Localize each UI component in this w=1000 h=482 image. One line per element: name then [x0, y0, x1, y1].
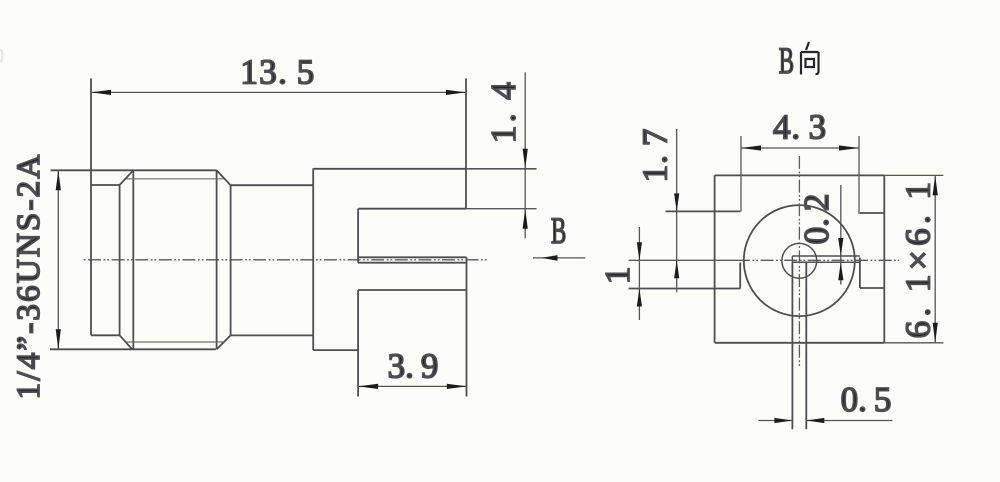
dimension 4.3	[741, 136, 859, 214]
hanzi xiang (drawn)	[801, 42, 819, 75]
right view square flange	[715, 175, 885, 342]
view direction arrow B	[533, 255, 585, 261]
svg-text:6. 1×6. 1: 6. 1×6. 1	[899, 178, 938, 339]
dimension 0.5	[758, 420, 892, 422]
leg strip (right view)	[792, 262, 806, 429]
dimension 3.9	[358, 385, 467, 387]
small circle (insulator)	[782, 243, 817, 278]
svg-text:B: B	[551, 210, 566, 251]
horizontal centerline right view	[629, 259, 738, 261]
svg-text:13. 5: 13. 5	[240, 53, 315, 92]
thread section outline	[50, 170, 231, 349]
dimension 13.5	[91, 91, 466, 93]
svg-text:1. 4: 1. 4	[484, 79, 523, 143]
svg-text:1: 1	[598, 267, 637, 285]
contact strip (pin in slot)	[358, 257, 466, 262]
lower leg	[358, 257, 466, 396]
svg-text:1. 7: 1. 7	[636, 128, 675, 183]
dimension 6.1 square	[884, 175, 943, 342]
svg-text:B: B	[779, 40, 794, 81]
dimension 0.2	[840, 185, 842, 285]
right notch	[860, 213, 884, 288]
scan artifact left edge	[1, 49, 3, 62]
dimension 1	[638, 227, 640, 320]
centerline left view	[83, 259, 488, 261]
svg-text:4. 3: 4. 3	[773, 108, 827, 147]
body block	[313, 78, 466, 350]
big circle (body)	[744, 205, 855, 316]
svg-text:0. 5: 0. 5	[841, 380, 892, 419]
svg-text:0. 2: 0. 2	[797, 194, 836, 245]
flat pin bar	[792, 256, 859, 262]
thread minor diameter lines	[127, 179, 224, 342]
left notch	[629, 211, 741, 288]
connector left face	[91, 78, 120, 335]
dimension 1.7	[676, 129, 678, 292]
neck section	[231, 185, 314, 335]
svg-text:3. 9: 3. 9	[388, 347, 439, 386]
svg-text:1/4”-36UNS-2A: 1/4”-36UNS-2A	[11, 153, 47, 400]
thread dimension line	[57, 170, 59, 349]
vertical centerline right view	[798, 156, 800, 368]
dimension 1.4	[466, 72, 537, 238]
